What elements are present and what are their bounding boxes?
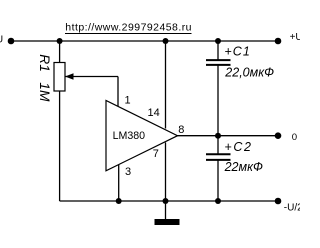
wire: C1 top lead <box>217 41 219 60</box>
capacitor C1 <box>206 59 231 61</box>
wire: top +U rail <box>11 40 278 42</box>
svg-text:22,0мкФ: 22,0мкФ <box>224 66 274 80</box>
svg-text:3: 3 <box>125 166 131 178</box>
op-amp U1 LM380 triangle <box>106 101 178 171</box>
svg-text:LM380: LM380 <box>113 130 146 142</box>
node: R1 top junction <box>57 38 63 44</box>
wire: bottom rail <box>60 200 278 202</box>
wire: C2 top lead <box>217 136 219 155</box>
svg-text:1M: 1M <box>37 82 52 102</box>
wire: C2 bottom lead <box>217 160 219 201</box>
svg-text:1: 1 <box>125 94 131 106</box>
node: C1 top junction <box>215 38 221 44</box>
node: pin 3 bottom junction <box>116 198 122 204</box>
wire: C1 bottom lead <box>217 65 219 136</box>
node: output terminal <box>275 132 282 139</box>
node: pin 14 junction <box>163 38 169 44</box>
ground <box>155 219 180 225</box>
svg-text:http://www.299792458.ru: http://www.299792458.ru <box>65 22 191 34</box>
svg-text:+C1: +C1 <box>224 44 249 58</box>
svg-text:R1: R1 <box>37 54 52 72</box>
svg-text:22мкФ: 22мкФ <box>224 160 263 174</box>
wire: ground lead <box>165 201 167 219</box>
svg-text:+U: +U <box>290 32 300 43</box>
svg-text:-U/2: -U/2 <box>284 203 300 214</box>
wire: R1 top lead <box>59 41 61 63</box>
node: pin 7 / ground junction <box>163 198 169 204</box>
wire: wiper to pin 1 <box>117 77 119 107</box>
wire: pin 14 <box>165 41 167 129</box>
R1 wiper arrow <box>65 76 118 78</box>
wire: pin 3 <box>118 165 120 201</box>
resistor R1 potentiometer body <box>54 63 65 92</box>
svg-text:7: 7 <box>153 148 159 160</box>
node: C2 bottom junction <box>215 198 221 204</box>
svg-text:8: 8 <box>178 124 184 136</box>
node: +U terminal <box>275 38 282 45</box>
node: -U/2 terminal <box>275 198 282 205</box>
wire: R1 bottom lead <box>59 91 61 201</box>
capacitor C2 <box>206 153 231 155</box>
svg-text:14: 14 <box>148 107 160 119</box>
svg-text:0: 0 <box>292 132 297 143</box>
svg-text:U: U <box>0 34 3 45</box>
svg-text:+C2: +C2 <box>224 140 251 154</box>
wire: output from pin 8 <box>178 135 279 137</box>
node: output junction <box>215 133 221 139</box>
node: input terminal <box>8 38 15 45</box>
wire: pin 7 <box>165 143 167 202</box>
